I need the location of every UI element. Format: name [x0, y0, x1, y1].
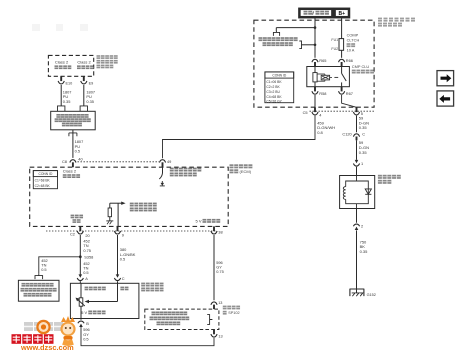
wire E9 down [83, 85, 85, 106]
svg-text:C2=2 BK: C2=2 BK [266, 85, 280, 89]
svg-text:C8: C8 [62, 159, 67, 164]
svg-text:5 V: 5 V [196, 218, 202, 223]
svg-text:0.75: 0.75 [216, 269, 224, 274]
svg-text:13: 13 [218, 334, 222, 338]
ECM dashed box [30, 167, 229, 226]
Class 2 left text [55, 59, 72, 69]
bracket in dashed box [207, 315, 212, 325]
A/C compressor clutch box [340, 176, 375, 209]
DLC box exit symbol [69, 133, 77, 136]
fuse value label COMP CLTCH 10 A [347, 33, 360, 53]
underhood fuse block dashed box [254, 20, 374, 107]
svg-text:CLTCH: CLTCH [347, 37, 360, 42]
splice S358 [79, 254, 93, 259]
wire label 596 GY 0.5 [83, 327, 90, 341]
inline connector lower 13 [211, 330, 223, 339]
relay label CMP CLU [352, 64, 374, 74]
svg-text:0.35: 0.35 [63, 99, 71, 104]
sensor pin A connector [77, 274, 88, 283]
faint watermark squares [32, 24, 88, 31]
ECM relay driver switch [159, 167, 165, 186]
svg-text:E10: E10 [66, 82, 73, 86]
wire from B+ feed down to fuse [341, 17, 343, 38]
inline connector upper 13 [211, 301, 223, 309]
terminal R58 [312, 87, 327, 96]
relay solid state element [317, 74, 332, 81]
svg-text:C2: C2 [70, 231, 75, 236]
wire label 59 D-GN 0.35 upper [359, 116, 369, 131]
svg-text:0.5: 0.5 [41, 267, 46, 272]
svg-text:E9: E9 [89, 82, 94, 86]
watermark red text weiku [12, 334, 54, 344]
svg-text:0.5: 0.5 [120, 256, 125, 261]
svg-text:0.35: 0.35 [359, 150, 368, 155]
svg-text:C5: C5 [303, 110, 308, 115]
wire pin4 down-left to ECM relay control [163, 116, 316, 159]
inline connector C120 [342, 131, 365, 140]
svg-text:R66: R66 [346, 58, 353, 63]
wire pin5 to C120 [356, 116, 358, 133]
connector row C5 dotted line [310, 110, 374, 112]
svg-text:C2=68 BK: C2=68 BK [35, 184, 51, 188]
A/C refrigerant pressure sensor box [70, 283, 138, 318]
connector C8 pin 40 [62, 157, 83, 168]
svg-text:FU1: FU1 [331, 38, 338, 42]
svg-text:C120: C120 [342, 131, 352, 136]
sensor pin C connector [114, 274, 124, 283]
pin E10 connector [58, 76, 72, 85]
signal label in sensor [120, 287, 128, 291]
svg-text:C1=06 BK: C1=06 BK [266, 80, 282, 84]
wire label 459 D-GN/WH 0.8 [317, 120, 335, 135]
svg-text:0.5: 0.5 [75, 148, 80, 153]
svg-text:Class 2: Class 2 [55, 59, 69, 64]
wire branch to power distribution note [276, 26, 316, 31]
pin 1 connector [353, 160, 363, 176]
svg-text:CMP CLU: CMP CLU [352, 64, 370, 69]
svg-text:CONN ID: CONN ID [38, 172, 53, 176]
terminal R66 [339, 58, 353, 67]
signal wire with arrow to transducer [85, 283, 118, 303]
svg-text:20: 20 [85, 233, 90, 238]
power feed box HOT IN RUN [299, 9, 332, 17]
wire label 59 D-GN 0.35 lower [359, 140, 369, 155]
DLC reference box [51, 106, 95, 130]
harness splice label SP102 [223, 306, 240, 316]
svg-text:CONN ID: CONN ID [272, 74, 287, 78]
svg-text:C5=26 GY: C5=26 GY [266, 99, 282, 103]
wire fuse to relay [341, 50, 343, 58]
wire label 380 L-GN/BK 0.5 [120, 247, 136, 261]
fuse COMP CLTCH 10A [339, 39, 344, 51]
pin E9 connector [81, 76, 94, 85]
svg-text:Class 2: Class 2 [77, 59, 91, 64]
ECM CONN ID table [33, 171, 57, 189]
svg-text:0.35: 0.35 [359, 125, 368, 130]
svg-text:0.35: 0.35 [86, 99, 94, 104]
pin 2 connector [353, 209, 363, 231]
off-page symbol power distribution [273, 31, 279, 36]
wire R67 jog to pin 5 [342, 95, 357, 107]
relay control label [170, 168, 202, 177]
connector row dotted line C8-49 [78, 161, 160, 163]
off-page symbol to reference box [35, 274, 43, 279]
svg-text:5 V: 5 V [81, 310, 87, 315]
svg-text:S358: S358 [84, 254, 93, 259]
5V reference dashed reference box lower [145, 309, 219, 329]
ground G152 [350, 289, 376, 297]
ECM pin C2-20 [70, 226, 91, 238]
5V reference label in sensor [81, 310, 105, 315]
svg-text:0.35: 0.35 [360, 249, 369, 254]
wire 380 from pin 9 [117, 235, 119, 275]
5V reference junction box text [21, 283, 57, 297]
svg-text:10 A: 10 A [347, 48, 355, 53]
svg-text:R67: R67 [346, 91, 353, 96]
wire label 596 GY 0.75 [216, 260, 224, 274]
DLC reference box text [55, 114, 91, 126]
wire DLC down [72, 130, 74, 158]
clutch coil [343, 187, 345, 200]
ECM bottom connector dotted row [46, 230, 216, 232]
bracket to wire [299, 41, 316, 49]
svg-text:38: 38 [218, 230, 222, 235]
svg-text:0.75: 0.75 [83, 248, 91, 253]
svg-text:0.5: 0.5 [83, 336, 88, 341]
svg-text:13: 13 [218, 301, 222, 305]
terminal R67 [339, 87, 353, 96]
ECM internal sensor signal circuit [110, 202, 126, 227]
connector pin 49 [159, 159, 171, 167]
ECM label [230, 164, 253, 174]
svg-text:9: 9 [122, 233, 124, 238]
label underhood fuse block location [378, 18, 415, 27]
bottom wire to sensor pin B [81, 326, 214, 346]
low reference label [71, 215, 83, 223]
radio module label [97, 55, 118, 68]
wire label 452 TN 0.5 main [83, 261, 90, 275]
ECM internal ground [106, 217, 113, 225]
wire label 1807 PU 0.35 right [86, 90, 95, 104]
pressure sensor label [141, 283, 163, 292]
svg-text:2: 2 [361, 224, 363, 229]
svg-text:C4=68 BK: C4=68 BK [266, 95, 282, 99]
fuse block CONN ID table [265, 72, 294, 103]
svg-text:G152: G152 [367, 293, 376, 297]
wire 452 from pin C2-20 [79, 235, 81, 275]
wire to ground G152 [356, 230, 358, 293]
watermark orange circle logo [36, 320, 50, 334]
Class 2 serial data dashed box [48, 55, 93, 76]
pin 5 connector [353, 107, 363, 116]
sensor pin B connector [78, 319, 89, 328]
wire label 1807 PU 0.35 left [63, 90, 72, 104]
5V reference junction reference box [18, 280, 59, 301]
wire label 452 TN 0.5 branch [41, 258, 48, 272]
wire from HOT feed down [314, 17, 316, 58]
wire label 750 BK 0.35 [360, 239, 369, 254]
relay CMP CLU box [307, 67, 350, 87]
note text power distribution schematic [259, 37, 298, 46]
svg-text:0.5: 0.5 [83, 270, 88, 275]
terminal R65 [312, 58, 327, 67]
svg-text:4: 4 [319, 112, 322, 117]
svg-text:0.8: 0.8 [317, 130, 323, 135]
svg-text:B: B [86, 321, 89, 326]
wire R58 down to pin 4 [314, 95, 316, 107]
svg-text:R65: R65 [319, 58, 326, 63]
wire label 1807 PU 0.5 [75, 139, 84, 153]
relay coil [313, 67, 317, 87]
svg-text:C: C [122, 276, 125, 281]
clutch diode [365, 189, 371, 194]
compressor clutch label [378, 175, 401, 184]
svg-text:C3=2 BU: C3=2 BU [266, 90, 280, 94]
svg-text:A: A [85, 276, 88, 281]
watermark mascot [60, 316, 75, 346]
off-page arrow box right [437, 71, 454, 86]
wire C120 to compressor pin 1 [356, 140, 358, 160]
svg-text:Class 2: Class 2 [63, 169, 77, 174]
relay switch [342, 67, 347, 87]
svg-text:40: 40 [78, 157, 83, 162]
svg-text:C: C [362, 131, 365, 136]
Class 2 right text [77, 59, 94, 69]
svg-text:R58: R58 [319, 91, 326, 96]
svg-text:C1=68 BK: C1=68 BK [35, 178, 51, 182]
wire 596 from pin 38 [213, 235, 215, 300]
Class 2 serial data label in ECM [63, 169, 80, 178]
low reference label in sensor [85, 287, 106, 291]
pin 4 connector [312, 107, 322, 117]
off-page arrow box left [437, 91, 454, 106]
svg-text:SP102: SP102 [228, 311, 239, 315]
ECM pull resistor [108, 208, 111, 217]
branch wire to 5V ref junction box [39, 257, 81, 274]
ECM pin 9 [114, 226, 124, 237]
transducer symbol [76, 283, 85, 318]
svg-text:FU2: FU2 [331, 47, 338, 51]
watermark gray text [24, 322, 63, 331]
wire E10 down [60, 85, 62, 106]
clutch inner loop [346, 176, 369, 209]
5V reference dashed box text [150, 312, 190, 326]
5V reference label in ECM [196, 218, 221, 223]
svg-text:(ECM): (ECM) [240, 169, 252, 174]
wire label 452 TN 0.75 [83, 239, 91, 253]
power feed box B+ [335, 9, 349, 17]
relay mechanical link dash [334, 76, 338, 78]
svg-text:1: 1 [361, 161, 363, 166]
ECM pin 38 [211, 226, 223, 234]
pressure sensor signal label [130, 203, 157, 212]
svg-text:49: 49 [167, 159, 171, 164]
svg-text:B+: B+ [339, 11, 346, 17]
